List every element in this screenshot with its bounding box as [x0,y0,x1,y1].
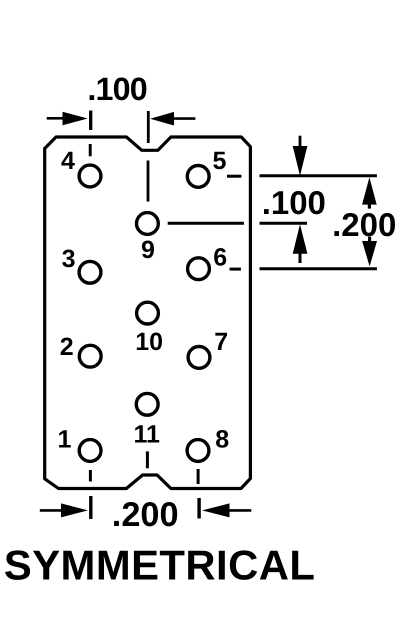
dimension .200 bottom: right extension tick [197,498,200,519]
centerline dash below pin 1 [89,470,92,482]
centerline dash below pin 8 [197,469,200,484]
svg-text:SYMMETRICAL: SYMMETRICAL [4,542,315,589]
dimension .200 right: connector line upper [368,204,371,209]
pin 5 [187,166,209,188]
dimension .200 bottom: right arrow [228,509,251,512]
extension line pin 5 row, outside body [260,174,377,177]
svg-text:10: 10 [135,328,163,356]
extension line pin 6 row, outside body [260,267,377,270]
pin 10 [137,302,159,324]
dimension .100 right: down arrow [299,136,302,148]
pin 1 [79,440,101,462]
svg-text:5: 5 [213,147,227,175]
svg-text:.200: .200 [332,206,396,243]
svg-text:7: 7 [214,328,228,356]
centerline dash through top notch [147,111,150,143]
svg-text:8: 8 [215,425,229,453]
extension line pin 6 row, inside body [230,268,241,271]
extension line pin 9 row, inside body [168,222,244,225]
extension line pin 5 row, inside body [227,175,241,178]
dimension .100 top: right arrow [173,117,196,120]
connector body outline [45,137,251,489]
centerline dash below pin 11 [146,451,149,468]
svg-text:.200: .200 [112,496,179,534]
svg-text:.100: .100 [262,184,326,221]
svg-text:11: 11 [134,420,161,448]
dimension .200 bottom: left extension tick [89,496,92,519]
dimension .100 right: up arrow [299,253,302,264]
dimension .100 top: left arrow [47,117,64,120]
svg-text:3: 3 [62,245,76,273]
pin 9 [137,213,159,235]
dimension .200 right: down arrowhead [362,241,377,266]
pin 2 [79,345,101,367]
dimension .200 bottom: left arrow [40,509,63,512]
pin 3 [79,261,101,283]
pin 6 [188,258,210,280]
pin 7 [188,347,210,369]
svg-text:2: 2 [60,333,74,361]
dimension .200 right: up arrowhead [362,177,377,204]
pin 11 [136,393,158,415]
centerline dash above pin 9 [147,161,150,202]
extension line pin 9 row, outside body [260,222,308,225]
svg-text:6: 6 [213,244,227,272]
pin 8 [187,440,209,462]
svg-text:4: 4 [61,147,75,175]
dimension .100 top: left extension tick [89,111,92,131]
svg-text:9: 9 [141,236,155,264]
svg-text:1: 1 [58,426,72,454]
svg-text:.100: .100 [87,71,146,107]
dimension .200 right: connector line lower [368,237,371,242]
pin 4 [79,165,101,187]
centerline dash above pin 4 [89,144,92,156]
